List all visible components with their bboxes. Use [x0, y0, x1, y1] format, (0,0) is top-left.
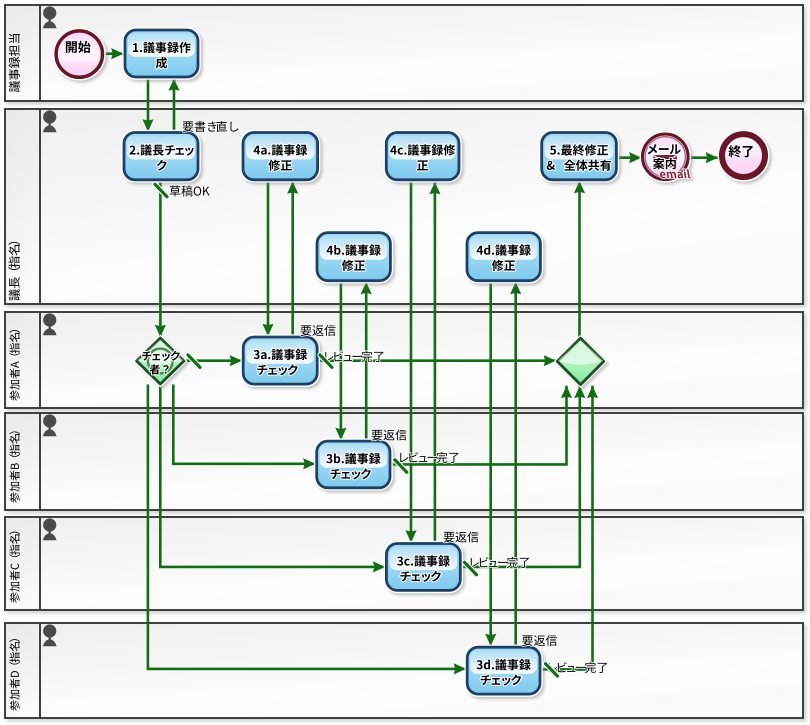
merge gateway: [557, 338, 603, 384]
wire task3a to task4a (要返信): [287, 182, 298, 338]
wire gateway1 to task3c: [160, 385, 385, 573]
task 3a.議事録チェック: [243, 337, 317, 384]
task 4b.議事録修正: [317, 233, 390, 281]
lane label 議長(指名): [8, 242, 20, 301]
label 要返信 (3d): [522, 635, 557, 646]
task 3b.議事録チェック: [317, 441, 390, 488]
lane 参加者A(指名): [5, 312, 803, 408]
person icon lane 参加者B(指名): [43, 414, 57, 436]
person icon lane 議事録担当: [43, 6, 57, 28]
wire task4a to task3a: [262, 180, 273, 336]
task 4d.議事録修正: [467, 233, 540, 281]
label レビュー完了 (3d): [549, 662, 607, 673]
wire task3d to task4d (要返信): [510, 282, 521, 647]
label レビュー完了 (3b): [400, 452, 458, 463]
wire gateway1 to task3a: [184, 355, 242, 366]
default-flow slash on wire task3c to merge (レビュー完了): [465, 562, 477, 574]
wire task3b to merge (レビュー完了): [390, 386, 572, 465]
lane label 参加者C(指名): [9, 532, 19, 603]
task 3c.議事録チェック: [386, 544, 460, 591]
wire task4c to task3c: [405, 180, 416, 543]
task 5.最終修正&全体共有: [542, 133, 617, 180]
default-flow slash on wire task3d to merge (レビュー完了): [546, 664, 558, 676]
person icon lane 参加者C(指名): [43, 518, 57, 540]
lane 参加者B(指名): [5, 413, 803, 510]
wire task4b to task3b: [335, 281, 346, 440]
wire task3d to merge (レビュー完了): [540, 386, 598, 670]
task 2.議長チェック: [124, 133, 198, 180]
lane 議事録担当: [5, 5, 803, 101]
wire task3c to merge (レビュー完了): [460, 386, 585, 567]
wire task4d to task3d: [485, 281, 496, 646]
start event 開始: [56, 31, 102, 77]
wire mail event to end: [688, 152, 719, 163]
wire task2 to task1 (要書き直し): [168, 79, 179, 133]
lane 参加者D(指名): [5, 623, 803, 718]
default-flow slash on wire task3b to merge (レビュー完了): [395, 460, 407, 472]
wire gateway1 to task3d: [148, 385, 466, 675]
intermediate event メール案内 (email): [643, 134, 691, 180]
lane 参加者C(指名): [5, 517, 803, 610]
label 要返信 (3c): [444, 531, 479, 542]
wire gateway1 to task3b: [173, 385, 315, 470]
person icon lane 参加者A(指名): [43, 313, 57, 335]
wire task2 to gateway1 (草稿OK): [155, 180, 166, 337]
label 要書き直し: [183, 121, 239, 132]
wire task1 to task2: [142, 77, 153, 132]
label レビュー完了 (3a): [325, 351, 383, 362]
lane label 議事録担当: [9, 34, 20, 92]
label 草稿OK: [170, 185, 210, 196]
wire task3c to task4c (要返信): [429, 182, 440, 544]
default-flow slash on wire task2 to gateway1 (草稿OK): [155, 184, 167, 196]
task 4a.議事録修正: [243, 133, 318, 180]
default-flow slash on wire task3a to merge (レビュー完了): [320, 355, 332, 367]
lane 議長(指名): [5, 109, 803, 304]
gateway チェック者? (inclusive): [137, 338, 184, 384]
end event 終了: [722, 134, 765, 177]
task 1.議事録作成: [125, 30, 198, 77]
wire task3a to merge (レビュー完了): [317, 355, 556, 366]
wire task5 to mail event: [616, 152, 641, 163]
task 4c.議事録修正: [386, 133, 459, 180]
lane label 参加者D(指名): [9, 639, 19, 711]
person icon lane 参加者D(指名): [43, 624, 57, 646]
label 要返信 (3b): [372, 429, 407, 440]
wire start to task1: [105, 48, 124, 59]
default-flow slash on wire gateway1 to task3a: [188, 355, 200, 367]
lane label 参加者B(指名): [9, 431, 19, 502]
label レビュー完了 (3c): [471, 557, 529, 568]
wire task3b to task4b (要返信): [361, 282, 372, 441]
label 要返信 (3a): [301, 325, 336, 336]
lane label 参加者A(指名): [9, 330, 19, 401]
wire merge to task5: [574, 181, 585, 338]
task 3d.議事録チェック: [467, 647, 540, 694]
person icon lane 議長(指名): [43, 110, 57, 132]
